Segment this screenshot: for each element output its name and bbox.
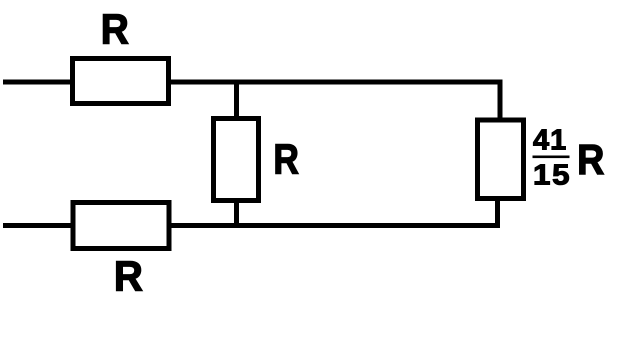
wire : top horizontal net <box>167 80 503 85</box>
wire : middle resistor bottom stub <box>234 199 239 228</box>
wire : right resistor bottom stub <box>495 197 500 228</box>
resistor R3 (right vertical, 41/15 R) <box>478 120 524 199</box>
resistor R1 (top-left horizontal) <box>73 59 169 104</box>
node A : junction of middle resistor with top net <box>234 82 239 120</box>
svg-text:15: 15 <box>533 160 571 192</box>
label 41/15 R : fraction bar <box>533 156 570 159</box>
svg-text:41: 41 <box>533 125 567 157</box>
wire : top-left lead <box>3 80 74 85</box>
svg-text:R: R <box>577 137 604 183</box>
svg-text:R: R <box>273 137 299 184</box>
wire : top-right corner drop <box>498 82 503 120</box>
wire : bottom-left lead <box>3 223 74 228</box>
svg-text:R: R <box>114 253 143 300</box>
wire : bottom horizontal net <box>168 223 501 228</box>
resistor R4 (bottom-left horizontal) <box>73 203 169 249</box>
resistor R2 (middle vertical) <box>214 119 259 201</box>
svg-text:R: R <box>101 5 129 53</box>
